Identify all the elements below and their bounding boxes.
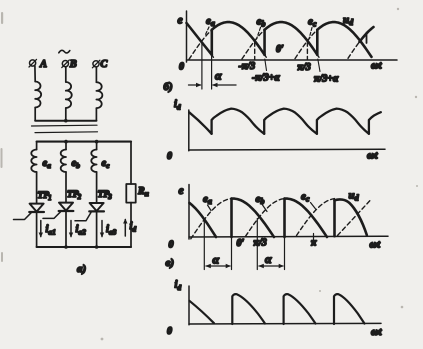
- current arrow i_a2: [69, 221, 73, 238]
- plot b: thick e_b arch: [265, 22, 318, 55]
- plot v: alpha dim line 4 (below firing 2): [284, 237, 286, 270]
- plot v: alpha dim line 3: [256, 219, 258, 270]
- plot b: dashed tail e_b to axis: [317, 55, 320, 59]
- plot b: dashed tail e_a to axis: [265, 55, 268, 59]
- wire winding A to primary neutral rail: [34, 108, 36, 121]
- plot v: alpha dim line 2 (below firing 1): [231, 237, 233, 270]
- plot id1: current initial falling segment: [189, 112, 211, 134]
- plot v: firing vertical 3: [333, 200, 336, 236]
- plot id2: current pulse tail initial: [189, 301, 214, 323]
- plot v: dashed e_a next rising line: [338, 200, 371, 236]
- wire rail to resistor Rn: [130, 142, 132, 184]
- gate TP1: [14, 213, 32, 220]
- transformer core line 1: [32, 124, 98, 127]
- plot v: alpha dim line 1: [203, 221, 205, 270]
- primary winding A: [35, 82, 41, 108]
- plot b: thick e_a arch: [212, 22, 265, 55]
- plot b: short vertical at last firing: [366, 33, 368, 44]
- secondary winding e_b: [61, 150, 66, 173]
- plot id2: omega-t axis: [189, 322, 381, 325]
- plot id1: current dome 2: [264, 109, 317, 134]
- svg-text:0′: 0′: [237, 238, 245, 249]
- plot v: label e_b with leader: [256, 193, 268, 212]
- plot b: dashed vertical at pi/3: [306, 42, 308, 60]
- svg-text:0: 0: [169, 240, 174, 251]
- plot b: dashed e_a next rising: [348, 42, 360, 59]
- junction secondary rail at phase c: [95, 140, 99, 144]
- svg-text:-π/3: -π/3: [239, 61, 256, 72]
- svg-text:π/3+α: π/3+α: [314, 74, 339, 85]
- wire thyristor TP2 to bottom rail: [65, 211, 67, 247]
- plot b: alpha arrow right: [212, 83, 236, 87]
- wire winding C to primary neutral rail: [95, 108, 97, 121]
- svg-text:e: e: [178, 15, 183, 27]
- plot v: thick e_b arch: [285, 199, 328, 237]
- plot b: omega-t axis horizontal: [187, 59, 398, 61]
- plot b: label e_b with leader: [257, 16, 266, 40]
- plot b: thick rising u_d end segment: [360, 27, 374, 42]
- current arrow i_d: [123, 219, 127, 237]
- plot b: label e_c with leader: [308, 16, 317, 40]
- plot b: firing vertical 2: [263, 30, 266, 55]
- svg-text:α: α: [213, 253, 220, 267]
- plot v: thick e_a arch: [232, 199, 275, 237]
- plot b: label e_a with leader: [205, 15, 215, 36]
- plot v: dashed e_a rising: [191, 199, 232, 239]
- plot id1: omega-t axis: [189, 148, 385, 151]
- svg-text:α: α: [215, 69, 222, 83]
- plot id2: current pulse 3: [334, 294, 365, 324]
- thyristor TP1: [14, 204, 44, 220]
- svg-text:π/3: π/3: [298, 62, 311, 73]
- svg-text:б): б): [164, 81, 173, 93]
- wire thyristor TP1 to bottom rail: [36, 212, 38, 247]
- plot v: dashed e_b rising: [246, 199, 285, 237]
- current arrow i_a3: [100, 221, 104, 238]
- wire rail to secondary winding e_a: [36, 142, 38, 150]
- svg-text:ωt: ωt: [371, 61, 383, 72]
- plot b: alpha dimension line right: [211, 55, 213, 89]
- svg-text:A: A: [39, 59, 47, 70]
- thyristor TP2: [43, 203, 73, 219]
- svg-text:C: C: [100, 59, 108, 70]
- junction primary neutral at B: [64, 119, 68, 123]
- bottom rail wire: [37, 246, 131, 248]
- primary winding B: [66, 82, 72, 108]
- svg-text:α: α: [265, 252, 272, 266]
- primary winding C: [96, 82, 102, 108]
- wire winding e_c to thyristor TP3: [96, 172, 98, 203]
- plot b: dashed vertical at -pi/3: [254, 42, 256, 60]
- terminal A: [29, 59, 47, 70]
- plot b: label -pi/3+alpha with leader: [252, 59, 280, 84]
- plot v: axis tick at pi: [313, 234, 315, 240]
- primary neutral rail wire: [35, 120, 96, 122]
- svg-text:а): а): [77, 263, 86, 275]
- plot id2: i_d axis vertical: [188, 286, 190, 325]
- plot v: e axis vertical: [188, 185, 190, 240]
- svg-text:-π/3+α: -π/3+α: [252, 73, 280, 84]
- junction bottom rail TP3: [95, 245, 99, 249]
- wire terminal B to primary winding B: [65, 67, 67, 82]
- plot b: dashed e_b rising: [242, 30, 265, 59]
- secondary winding e_c: [91, 150, 96, 173]
- wire rail to secondary winding e_b: [65, 142, 67, 150]
- svg-text:π/3: π/3: [254, 238, 267, 249]
- plot id2: current pulse 1: [232, 294, 265, 324]
- resistor Rn: [126, 184, 135, 203]
- plot b: thick e_c tail segment: [187, 23, 212, 55]
- plot v: firing vertical 2: [283, 199, 286, 237]
- thyristor TP3: [75, 203, 104, 221]
- plot id1: current dome 1: [212, 109, 265, 134]
- wire winding e_b to thyristor TP2: [65, 172, 67, 203]
- svg-text:ωt: ωt: [367, 151, 379, 162]
- svg-text:в): в): [166, 257, 175, 269]
- plot v: alpha arrow pair 2: [258, 264, 283, 268]
- svg-text:0: 0: [167, 151, 172, 162]
- plot v: dashed e_c rising: [297, 199, 335, 236]
- current arrow i_a1: [39, 221, 43, 238]
- transformer core line 2: [35, 131, 98, 134]
- wire rail to secondary winding e_c: [96, 142, 98, 150]
- wire winding e_a to thyristor TP1: [36, 172, 38, 204]
- junction bottom rail TP2: [64, 245, 68, 249]
- plot v: label e_c with leader: [301, 191, 316, 210]
- plot b: e axis vertical: [186, 11, 188, 62]
- plot b: dashed e_c rising: [295, 30, 317, 59]
- terminal B: [62, 59, 77, 70]
- svg-text:ωt: ωt: [370, 240, 382, 251]
- svg-text:e: e: [179, 185, 184, 197]
- plot id1: current dome 3: [317, 109, 369, 134]
- svg-text:0: 0: [179, 62, 184, 73]
- svg-text:0: 0: [167, 326, 172, 337]
- AC tilde mark: [59, 50, 70, 53]
- wire terminal C to primary winding C: [95, 67, 97, 82]
- wire resistor Rn to bottom rail: [130, 203, 132, 247]
- plot b: dashed e_a rising: [189, 30, 212, 60]
- plot b: firing vertical 3: [316, 30, 319, 55]
- terminal C: [92, 59, 108, 70]
- svg-text:B: B: [69, 59, 77, 70]
- secondary winding e_a: [31, 150, 36, 173]
- plot v: label e_a with leader: [203, 193, 212, 211]
- plot v: thick e_c tail segment: [189, 203, 216, 237]
- wire terminal A to primary winding A: [34, 66, 36, 82]
- plot id1: i_d axis vertical: [188, 110, 190, 151]
- plot v: omega-t axis: [189, 235, 388, 238]
- gate TP2: [43, 212, 61, 219]
- plot b: firing vertical 1: [211, 30, 214, 55]
- secondary top rail wire: [37, 141, 131, 143]
- plot b: alpha arrow left: [189, 83, 202, 87]
- plot v: firing vertical 1: [230, 199, 233, 237]
- plot v: thick e_c arch: [335, 199, 367, 235]
- svg-text:ωt: ωt: [371, 327, 383, 338]
- wire thyristor TP3 to bottom rail: [96, 211, 98, 247]
- plot id2: current pulse 2: [284, 294, 316, 324]
- svg-text:0′: 0′: [276, 44, 284, 55]
- plot b: alpha dimension line left: [201, 42, 203, 89]
- plot v: alpha arrow pair 1: [205, 264, 230, 268]
- wire winding B to primary neutral rail: [65, 108, 67, 121]
- plot b: thick e_c arch: [317, 22, 371, 57]
- plot b: dashed tail e_c to axis: [212, 55, 215, 59]
- plot id1: current last rising segment: [369, 112, 381, 134]
- plot b: label pi/3+alpha with leader: [314, 59, 339, 85]
- junction secondary rail at phase b: [64, 140, 68, 144]
- gate TP3: [75, 212, 91, 221]
